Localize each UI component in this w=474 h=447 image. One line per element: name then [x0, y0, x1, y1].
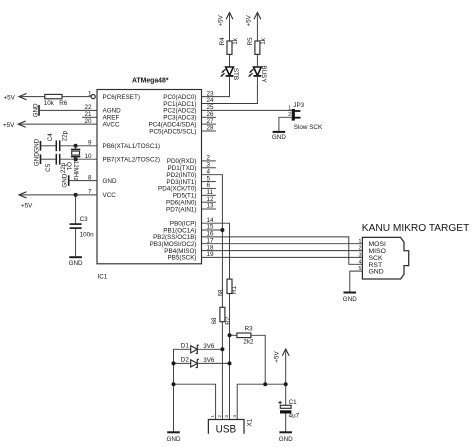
wire pin 27 stub: [202, 123, 216, 125]
jumper JP3: [288, 102, 304, 120]
pin number target 3: [359, 253, 362, 259]
IC IC1 ATMega48 body: [97, 90, 202, 264]
svg-text:22p: 22p: [62, 130, 69, 141]
wire +5V to R4: [229, 13, 231, 42]
connector X1 USB: [208, 418, 253, 435]
svg-text:+5V: +5V: [218, 14, 225, 26]
node R3 junction on D+: [228, 333, 232, 337]
pin name PD2(INT0): [166, 172, 196, 179]
+5V supply arrow at VCC row: [19, 192, 33, 210]
wire LED BUSY to pin row: [202, 76, 258, 104]
ground symbol for C5: [33, 152, 40, 166]
svg-text:GND: GND: [69, 260, 83, 267]
pin name PD6(AIN0): [166, 200, 196, 207]
pin name PD4(XCK/T0): [158, 186, 197, 193]
pin name PB6(XTAL1/TOSC1): [103, 143, 161, 150]
wire GND pin 8: [69, 180, 97, 182]
svg-text:D2: D2: [181, 357, 190, 364]
ground symbol at GND pin 8: [62, 173, 69, 187]
wire target GND pin 5: [350, 271, 363, 292]
svg-text:R1: R1: [231, 285, 238, 294]
wire C3 to ground: [75, 229, 77, 256]
pin name PD3(INT1): [166, 179, 196, 186]
wire pin 25 to JP3: [202, 109, 292, 111]
capacitor C3 100n: [70, 216, 95, 238]
pin number 1: [88, 90, 92, 97]
wire R4 to LED STB: [229, 54, 231, 66]
node XTAL2 junction: [74, 157, 78, 161]
pin number 27: [207, 118, 215, 125]
wire MISO pin 18 to target: [202, 250, 363, 252]
resistor R3 2k2: [237, 325, 254, 345]
svg-text:GND: GND: [33, 152, 40, 166]
pin number USB 1: [210, 415, 215, 418]
pin name PD7(AIN1): [166, 206, 196, 213]
svg-text:R4: R4: [219, 37, 226, 46]
svg-text:GND: GND: [369, 269, 384, 276]
pin number 12: [207, 196, 215, 203]
pin number USB 3: [224, 415, 229, 418]
wire AGND pin 22: [39, 109, 97, 111]
wire pin 28 stub: [202, 130, 216, 132]
pin name target MISO: [369, 248, 386, 255]
svg-text:STB: STB: [232, 68, 239, 80]
node D2 to D+ junction: [228, 361, 232, 365]
wire LED STB to pin row: [202, 76, 230, 97]
svg-text:PB7(XTAL2/TOSC2): PB7(XTAL2/TOSC2): [103, 157, 161, 164]
ground symbol bottom left: [167, 432, 181, 443]
pin name AREF: [103, 115, 120, 122]
pin 1 inversion circle: [91, 95, 95, 99]
pin name PC2(ADC2): [163, 108, 196, 115]
svg-text:4: 4: [232, 415, 237, 418]
svg-text:GND: GND: [272, 134, 286, 141]
pin number USB 2: [217, 415, 222, 418]
svg-text:1k: 1k: [232, 37, 239, 45]
svg-text:Slow SCK: Slow SCK: [294, 124, 323, 131]
ground symbol at AGND pin 22: [33, 103, 40, 117]
svg-text:68: 68: [218, 289, 225, 297]
pin number 10: [84, 153, 92, 160]
pin number target 1: [359, 239, 362, 245]
svg-text:BUSY: BUSY: [260, 65, 267, 83]
pin number 28: [207, 125, 215, 132]
wire +5V to R5: [256, 13, 258, 42]
+5V supply arrow above R5: [246, 13, 261, 27]
svg-text:C1: C1: [289, 399, 298, 406]
svg-text:PC6(RESET): PC6(RESET): [103, 94, 140, 101]
svg-text:PB5(SCK): PB5(SCK): [167, 255, 196, 262]
wire pin 13 stub: [202, 208, 216, 210]
pin number 8: [88, 174, 92, 181]
capacitor C4 22p: [47, 130, 68, 151]
wire +5V to R6: [19, 96, 45, 98]
svg-text:USB: USB: [216, 423, 237, 435]
svg-text:R2: R2: [225, 316, 232, 325]
pin name PD0(RXD): [167, 158, 197, 165]
svg-text:KANU MIKRO TARGET: KANU MIKRO TARGET: [362, 223, 470, 234]
svg-text:GND: GND: [343, 296, 357, 303]
pin name VCC: [103, 192, 117, 199]
node PB1 junction: [220, 228, 224, 232]
LED STB: [220, 67, 239, 80]
svg-text:+5V: +5V: [21, 202, 33, 209]
ground symbol below C3: [69, 257, 83, 267]
pin number 24: [207, 97, 215, 104]
pin number 22: [84, 104, 92, 111]
pin name PB2(SS/OC1B): [153, 234, 196, 241]
svg-text:3: 3: [224, 415, 229, 418]
svg-text:3V6: 3V6: [203, 343, 215, 350]
wire D+ to R3: [230, 334, 237, 336]
capacitor C1 4u7 polarized: [279, 384, 300, 432]
label IC1: [98, 274, 108, 281]
diode D1 3V6: [174, 343, 223, 354]
svg-text:AVCC: AVCC: [103, 121, 120, 128]
wire pin 2 stub: [202, 160, 216, 162]
wire JP3 pin 2 to ground: [279, 117, 292, 131]
pin name AVCC: [103, 121, 120, 128]
pin number 15: [207, 224, 215, 231]
node GND rail junction: [172, 382, 176, 386]
wire R6 to pin 1: [62, 96, 91, 98]
resistor R5 1k: [247, 37, 267, 55]
pin number 20: [84, 118, 92, 125]
capacitor C5 22p: [45, 154, 67, 173]
svg-text:R5: R5: [247, 37, 254, 46]
svg-text:1k: 1k: [260, 37, 267, 45]
svg-text:3V6: 3V6: [203, 357, 215, 364]
svg-text:+5V: +5V: [274, 351, 281, 363]
pin number 19: [207, 251, 215, 258]
pin number 18: [207, 244, 215, 251]
diode D2 3V6: [174, 357, 230, 368]
svg-text:IC1: IC1: [98, 274, 108, 281]
wire pin 11 stub: [202, 194, 216, 196]
svg-text:JP3: JP3: [293, 102, 304, 109]
resistor R1 68: [218, 279, 239, 296]
svg-text:2k2: 2k2: [243, 339, 254, 346]
svg-text:+5V: +5V: [3, 122, 15, 129]
pin name PC3(ADC3): [163, 115, 196, 122]
pin number 26: [207, 111, 215, 118]
svg-text:X1: X1: [247, 418, 254, 426]
pin number 2: [207, 155, 211, 162]
pin number 11: [207, 189, 214, 196]
wire C5 to pin 10: [60, 158, 97, 160]
wire +5V rail to USB pin 4: [237, 384, 286, 419]
+5V supply arrow above R4: [218, 13, 233, 27]
pin name PB0(ICP): [170, 221, 197, 228]
pin number 5: [207, 175, 211, 182]
svg-text:C4: C4: [47, 133, 54, 142]
pin name PB4(MISO): [164, 248, 196, 255]
svg-text:+5V: +5V: [246, 14, 253, 26]
wire PD2 INT0 net D- vertical: [202, 175, 223, 420]
pin name PC4(ADC4/SDA): [149, 121, 197, 128]
svg-text:ATMega48*: ATMega48*: [132, 77, 169, 84]
label ATMega48*: [132, 77, 169, 84]
svg-text:C3: C3: [80, 216, 89, 223]
svg-text:GND: GND: [279, 436, 293, 443]
wire AVCC pin 20: [18, 123, 97, 125]
+5V supply arrow at AVCC row: [3, 121, 26, 129]
pin name AGND: [103, 108, 122, 115]
wire pin 6 stub: [202, 187, 216, 189]
pin number USB 4: [232, 415, 237, 418]
resistor R6 10k: [44, 94, 68, 107]
pin number target 2: [359, 246, 362, 252]
connector SV1 target body: [362, 237, 408, 279]
svg-text:VCC: VCC: [103, 192, 117, 199]
pin name PB1(OC1A): [163, 227, 196, 234]
pin name PB5(SCK): [167, 255, 196, 262]
wire GND to C5: [41, 158, 57, 160]
pin number 9: [88, 140, 92, 147]
svg-text:R3: R3: [245, 325, 254, 332]
pin number 4: [207, 168, 211, 175]
node R3 drop junction: [263, 382, 267, 386]
node D1 to D- junction: [220, 347, 224, 351]
svg-text:GND: GND: [167, 436, 181, 443]
wire GND to C4: [41, 145, 57, 147]
svg-text:R6: R6: [59, 100, 68, 107]
svg-text:+5V: +5V: [4, 94, 16, 101]
wire pin 12 stub: [202, 201, 216, 203]
pin name PB3(MOSI/OC2): [150, 241, 197, 248]
label Slow SCK: [294, 124, 323, 131]
pin number 7: [88, 189, 92, 196]
svg-text:12MHz: 12MHz: [72, 161, 79, 181]
svg-text:10k: 10k: [44, 100, 55, 107]
pin name PD5(T1): [173, 193, 197, 200]
svg-text:GND: GND: [33, 103, 40, 117]
ground symbol below target: [343, 293, 357, 303]
svg-text:1: 1: [288, 106, 291, 112]
svg-text:28: 28: [207, 125, 215, 132]
pin number 17: [207, 237, 215, 244]
wire R5 to LED BUSY: [256, 54, 258, 66]
svg-text:C5: C5: [45, 163, 52, 172]
pin name PD1(TXD): [167, 165, 196, 172]
pin name target GND: [369, 269, 384, 276]
svg-text:68: 68: [211, 317, 218, 325]
svg-text:1: 1: [210, 415, 215, 418]
wire pin 3 stub: [202, 167, 216, 169]
node +5V C1 junction: [284, 382, 288, 386]
svg-text:PC5(ADC5/SCL): PC5(ADC5/SCL): [149, 128, 196, 135]
ground symbol below JP3: [272, 132, 286, 141]
pin name PC1(ADC1): [163, 101, 196, 108]
pin number 6: [207, 182, 211, 189]
pin number 14: [207, 217, 215, 224]
+5V supply arrow at RESET row: [4, 94, 27, 102]
node VCC junction: [74, 193, 78, 197]
svg-text:13: 13: [207, 203, 215, 210]
pin number target 5: [359, 266, 362, 272]
pin number 25: [207, 104, 215, 111]
svg-text:Q1: Q1: [65, 162, 72, 171]
crystal Q1 12MHz: [65, 146, 80, 181]
pin number target 4: [359, 259, 362, 265]
resistor R2 68: [211, 307, 231, 324]
svg-text:GND: GND: [62, 173, 69, 187]
wire VCC pin 7: [19, 194, 97, 196]
node D1 anode rail top: [173, 349, 175, 432]
pin name PC6(RESET): [103, 94, 140, 101]
pin name target MOSI: [369, 241, 386, 248]
node XTAL1 junction: [74, 144, 78, 148]
pin number 16: [207, 231, 215, 238]
pin number 3: [207, 162, 211, 169]
pin name GND: [103, 178, 117, 185]
pin number 13: [207, 203, 215, 210]
+5V supply arrow above rail: [274, 349, 289, 384]
pin number 23: [207, 90, 215, 97]
pin name PC5(ADC5/SCL): [149, 128, 196, 135]
wire pin 26 stub: [202, 116, 216, 118]
wire C4 to pin 9: [60, 145, 97, 147]
wire PB0 net D+ vertical: [202, 223, 230, 419]
wire RST pin 16 to target: [202, 237, 363, 264]
wire SCK pin 19 to target: [202, 256, 363, 258]
wire pin 15 PB1: [202, 229, 223, 231]
svg-text:GND: GND: [103, 178, 117, 185]
resistor R4 1k: [219, 37, 239, 55]
pin number 21: [84, 111, 92, 118]
wire VCC to C3: [75, 195, 77, 224]
wire pin 5 stub: [202, 181, 216, 183]
svg-text:2: 2: [217, 415, 222, 418]
svg-text:GND: GND: [33, 138, 40, 152]
wire MOSI pin 17 to target: [202, 243, 363, 245]
pin name target RST: [369, 262, 383, 269]
wire R3 to +5V rail: [251, 335, 265, 384]
pin name PB7(XTAL2/TOSC2): [103, 157, 161, 164]
pin name PC0(ADC0): [163, 94, 196, 101]
wire GND rail to USB pin 1: [174, 384, 216, 419]
ground symbol for C4: [33, 138, 40, 152]
ground symbol below C1: [279, 432, 293, 443]
svg-text:100n: 100n: [80, 231, 95, 238]
svg-text:D1: D1: [181, 343, 190, 350]
svg-text:PD7(AIN1): PD7(AIN1): [166, 206, 196, 213]
svg-text:PB6(XTAL1/TOSC1): PB6(XTAL1/TOSC1): [103, 143, 161, 150]
pin name target SCK: [369, 255, 383, 262]
wire pin 21 stub: [82, 116, 97, 118]
svg-text:4u7: 4u7: [289, 413, 300, 420]
LED BUSY: [248, 65, 267, 83]
node D2 anode junction: [172, 361, 176, 365]
label KANU MIKRO TARGET: [362, 223, 470, 234]
